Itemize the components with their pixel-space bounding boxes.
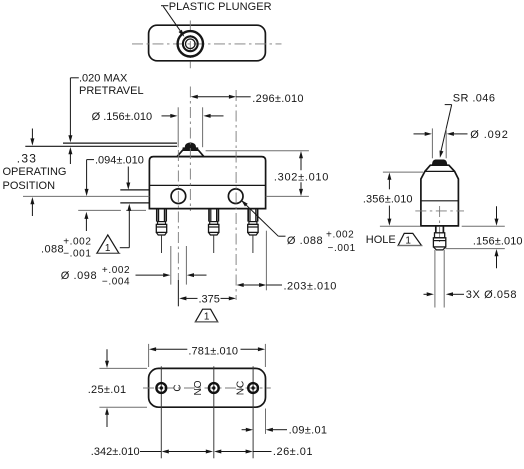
dim .203 <box>237 283 244 287</box>
top view horizontal centerline <box>132 43 282 45</box>
dim .33 arrows <box>31 129 33 140</box>
datum flag 1 below .375 <box>195 309 218 322</box>
side view cap line <box>425 170 455 172</box>
svg-text:HOLE: HOLE <box>366 234 396 246</box>
hole top extension line <box>120 189 149 191</box>
svg-text:+.002: +.002 <box>326 230 354 241</box>
side view terminal pin <box>434 250 436 308</box>
terminal 3 (front view) <box>247 209 249 222</box>
front view body seam line <box>149 184 265 186</box>
svg-text:.342±.010: .342±.010 <box>91 446 140 458</box>
dim .342 <box>162 450 169 454</box>
svg-text:1: 1 <box>105 243 111 254</box>
dim .356 arrows <box>387 173 391 180</box>
front view plunger dome (filled) <box>183 143 198 150</box>
side view plunger dome (filled) <box>432 160 447 165</box>
svg-text:OPERATING: OPERATING <box>3 166 67 178</box>
svg-text:.33: .33 <box>17 152 37 166</box>
datum flag 1 (triangle) <box>97 235 119 254</box>
dim .09 arrows <box>242 429 247 431</box>
datum flag 1 after HOLE <box>398 233 421 245</box>
dim .088 up arrow <box>85 218 87 231</box>
side view body outline <box>421 165 459 226</box>
dim .296 <box>191 95 198 99</box>
dia .098 leader arrow <box>136 274 164 276</box>
dia .156 extension lines <box>177 107 179 147</box>
dim .09 extension <box>265 409 267 434</box>
svg-text:.356±.010: .356±.010 <box>363 193 413 205</box>
operating position line (upper) <box>25 145 177 147</box>
svg-text:1: 1 <box>405 236 411 247</box>
bottom view body outline <box>149 368 266 407</box>
front view mounting hole right <box>228 189 243 204</box>
terminal 1 (front view) <box>156 209 158 222</box>
dim .020 pretravel bracket <box>70 77 78 79</box>
svg-text:.094±.010: .094±.010 <box>95 155 144 167</box>
front view body outline <box>149 157 265 209</box>
svg-text:Ø .092: Ø .092 <box>470 129 508 141</box>
dim .094 bracket <box>87 159 94 161</box>
svg-text:NO: NO <box>193 380 204 395</box>
svg-text:+.002: +.002 <box>102 265 130 276</box>
side view seam line <box>421 200 459 202</box>
svg-text:PRETRAVEL: PRETRAVEL <box>79 85 144 97</box>
svg-text:.088: .088 <box>41 244 64 256</box>
hole bottom extension line <box>120 202 149 204</box>
dim .25 arrows <box>106 349 108 361</box>
svg-text:−.004: −.004 <box>102 276 130 287</box>
svg-text:.020 MAX: .020 MAX <box>79 73 128 85</box>
svg-text:NC: NC <box>235 381 246 395</box>
dim .781 <box>149 347 156 351</box>
flag connector to hole edge line <box>120 247 130 249</box>
dim .25 extensions <box>99 367 147 369</box>
dim .781 extensions <box>148 344 150 367</box>
dia .088 leader <box>241 200 248 206</box>
dim .020 up arrow <box>69 154 71 165</box>
svg-text:−.001: −.001 <box>63 249 91 260</box>
right hole centerline (vertical) <box>235 90 237 300</box>
terminal C (bottom view) <box>156 383 166 393</box>
terminal NC (bottom view) <box>248 383 258 393</box>
svg-text:−.001: −.001 <box>328 243 356 254</box>
plunger centerline (vertical) <box>189 87 191 212</box>
dim .302 extension top <box>206 150 309 152</box>
svg-text:.302±.010: .302±.010 <box>274 172 329 184</box>
front view mounting hole left <box>171 189 186 204</box>
svg-text:Ø .156±.010: Ø .156±.010 <box>92 111 152 123</box>
terminal NO centerline <box>213 366 215 458</box>
svg-text:C: C <box>172 384 183 391</box>
plastic plunger circles (top view) <box>178 31 203 56</box>
svg-text:.375: .375 <box>199 293 220 305</box>
dim .156 extension top <box>462 225 505 227</box>
datum line through holes (left extension) <box>23 195 149 197</box>
terminal NC centerline <box>252 366 254 458</box>
dia .098 extension lines <box>170 246 172 285</box>
svg-text:.26±.01: .26±.01 <box>273 446 313 458</box>
svg-text:POSITION: POSITION <box>3 180 56 192</box>
dim .302 extension bottom <box>266 195 309 197</box>
dim .375 <box>179 296 186 300</box>
side view horizontal centerline <box>415 210 464 212</box>
top view vertical centerline <box>189 21 191 69</box>
top view: switch body outline (rounded rect) <box>149 25 266 61</box>
svg-text:Ø .088: Ø .088 <box>287 235 323 247</box>
svg-text:3X Ø.058: 3X Ø.058 <box>466 289 517 301</box>
svg-text:.156±.010: .156±.010 <box>473 235 523 247</box>
left hole centerline (vertical) <box>177 150 179 280</box>
dim .356 extensions <box>383 171 423 173</box>
free position line <box>63 142 177 144</box>
front view plunger base (trapezoid) <box>177 150 204 156</box>
lower gray line (.088 ref) <box>78 209 121 211</box>
label PLASTIC PLUNGER leader <box>161 5 168 7</box>
dia .092 extension lines <box>431 128 433 158</box>
svg-text:.09±.01: .09±.01 <box>289 425 328 437</box>
terminal C centerline <box>160 366 162 458</box>
terminal NO (bottom view) <box>209 383 219 393</box>
dim .094 down arrow <box>127 167 129 184</box>
dim .156 arrows <box>496 206 498 219</box>
svg-text:.203±.010: .203±.010 <box>284 280 337 292</box>
terminal 2 (front view) <box>208 209 210 222</box>
side view vertical centerline <box>439 206 441 242</box>
dim .302 arrows <box>299 151 303 158</box>
svg-text:.296±.010: .296±.010 <box>252 93 304 105</box>
dim .342 leader <box>140 451 161 453</box>
bottom view horizontal centerline <box>143 387 271 389</box>
dia .156 arrows <box>162 115 171 117</box>
svg-text:1: 1 <box>204 311 210 322</box>
svg-text:+.002: +.002 <box>63 236 91 247</box>
dim 3X .058 arrows <box>424 293 427 295</box>
dia .092 arrows <box>414 133 425 135</box>
side view terminal <box>435 226 437 233</box>
dim .203 extension line <box>265 231 267 291</box>
svg-text:.781±.010: .781±.010 <box>188 345 238 357</box>
dim .26 <box>214 450 221 454</box>
svg-text:.25±.01: .25±.01 <box>88 384 127 396</box>
svg-text:SR .046: SR .046 <box>453 92 496 104</box>
dia .098 right arrow <box>187 273 194 277</box>
label SR .046 leader <box>445 104 452 106</box>
svg-text:Ø .098: Ø .098 <box>61 270 97 282</box>
dim .156 extension bottom <box>446 248 505 250</box>
svg-text:PLASTIC PLUNGER: PLASTIC PLUNGER <box>169 1 272 13</box>
